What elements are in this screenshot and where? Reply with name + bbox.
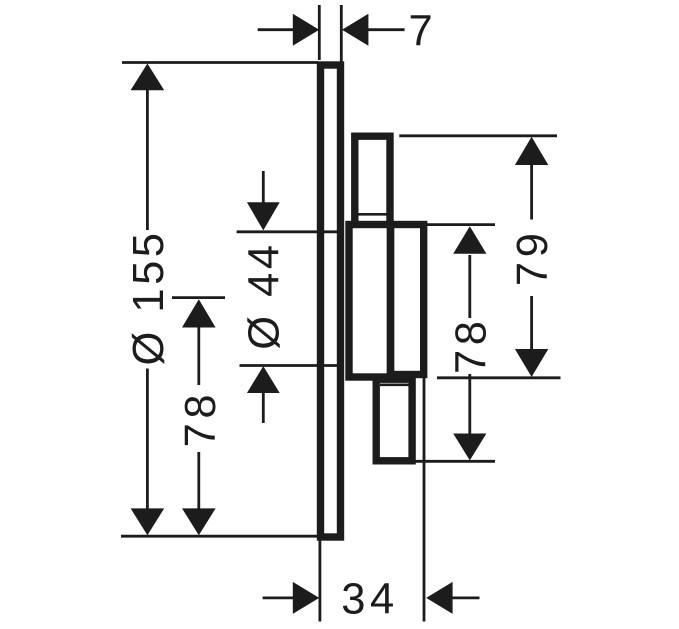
- Ø155 dimension line: [146, 88, 149, 230]
- 78 right extension top: [423, 223, 495, 226]
- svg-text:Ø 44: Ø 44: [241, 241, 289, 349]
- arrow Ø44 top (points down): [247, 202, 280, 230]
- escutcheon plate (side view): [321, 65, 341, 537]
- 34 extension right: [423, 374, 426, 622]
- 78 left dimension line: [197, 326, 200, 385]
- svg-text:7: 7: [408, 8, 436, 56]
- cartridge sleeve box: [349, 225, 391, 378]
- arrow 78 right top: [453, 226, 486, 254]
- extension line left of 7: [318, 5, 321, 60]
- arrow 78 left bottom: [182, 508, 216, 535]
- arrow 7 left: [293, 14, 319, 46]
- arrow 78 left top: [182, 299, 216, 327]
- dimension 7 leader left: [258, 28, 294, 31]
- Ø155 extension bottom: [121, 535, 320, 538]
- arrow Ø155 top: [131, 64, 165, 91]
- svg-text:Ø 155: Ø 155: [125, 230, 173, 366]
- arrow 79 bottom: [515, 349, 548, 377]
- arrow 7 right: [342, 14, 368, 46]
- Ø155 extension top: [122, 61, 318, 64]
- 34 extension left: [318, 541, 321, 622]
- 34 leader left: [263, 597, 294, 600]
- Ø44 extension top: [237, 230, 340, 233]
- Ø44 extension bottom: [240, 364, 338, 367]
- arrow 34 right: [426, 582, 452, 614]
- 79 dimension line: [530, 164, 533, 220]
- 79 / 78 right extension bottom: [437, 376, 561, 379]
- arrow Ø155 bottom: [131, 508, 165, 535]
- Ø44 leader top: [262, 171, 265, 204]
- svg-text:34: 34: [341, 576, 399, 624]
- 79 extension top: [399, 134, 557, 137]
- svg-text:78: 78: [448, 316, 496, 374]
- arrow 34 left: [293, 582, 319, 614]
- 78 left center tick: [172, 296, 225, 299]
- svg-text:78: 78: [177, 390, 225, 448]
- 78 right extension bottom: [414, 460, 495, 463]
- 34 leader right: [451, 597, 480, 600]
- function block box: [390, 225, 423, 375]
- arrow Ø44 bottom (points up): [247, 366, 280, 393]
- upper stop sleeve box: [351, 133, 393, 228]
- arrow 79 top: [515, 137, 548, 165]
- dimension 7 leader right: [367, 28, 405, 31]
- Ø44 leader bottom: [262, 393, 265, 424]
- svg-text:79: 79: [509, 229, 557, 287]
- extension line right of 7: [340, 5, 343, 62]
- 78 right dimension line: [468, 255, 471, 318]
- lower stop sleeve box: [376, 379, 412, 461]
- arrow 78 right bottom: [453, 434, 486, 461]
